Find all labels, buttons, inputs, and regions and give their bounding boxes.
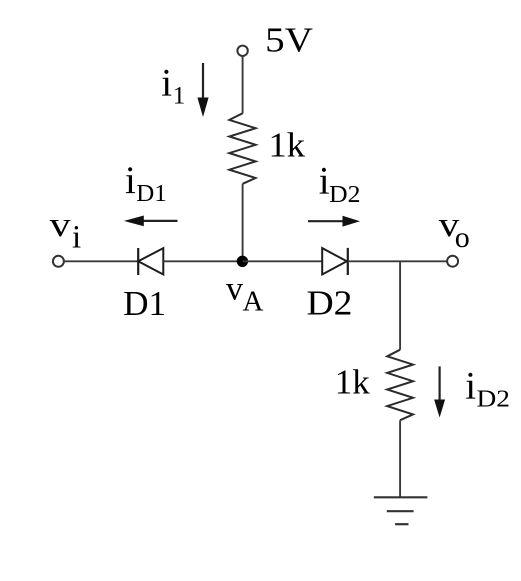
svg-text:5V: 5V: [265, 21, 313, 60]
svg-text:1k: 1k: [335, 362, 371, 401]
label iD2: [319, 159, 361, 208]
svg-text:D2: D2: [307, 284, 353, 323]
wire output node down to R2: [399, 261, 401, 349]
terminal 5V supply: [237, 46, 247, 56]
resistor R1: [229, 113, 255, 184]
svg-text:v: v: [50, 205, 72, 244]
svg-text:i: i: [72, 220, 81, 256]
svg-text:A: A: [243, 285, 264, 317]
svg-text:i: i: [125, 159, 136, 202]
svg-text:1: 1: [173, 82, 186, 109]
wire R2 to ground: [399, 420, 401, 497]
label vA: [226, 270, 264, 317]
terminal vo output: [447, 256, 458, 267]
label i1: [161, 61, 185, 109]
svg-text:v: v: [226, 270, 243, 307]
current arrow iD1: [124, 216, 178, 227]
svg-text:i: i: [465, 364, 476, 407]
wire node A to D2: [243, 260, 323, 262]
diode D1: [138, 248, 163, 275]
label iD1: [125, 159, 167, 207]
diode D2: [322, 248, 348, 275]
node A junction dot: [237, 256, 248, 267]
label iD2 (R2 current): [465, 364, 510, 412]
svg-text:i: i: [161, 61, 172, 104]
wire R1 to node A: [242, 184, 244, 261]
wire vi terminal to D1: [64, 260, 138, 262]
svg-text:D1: D1: [136, 181, 167, 207]
current arrow iD2: [308, 216, 360, 227]
wire D1 to node A: [163, 260, 242, 262]
wire D2 to vo terminal: [348, 260, 447, 262]
ground: [374, 497, 428, 524]
label vi: [50, 205, 82, 256]
svg-text:o: o: [455, 221, 470, 254]
svg-text:1k: 1k: [269, 126, 306, 165]
wire supply to R1: [242, 56, 244, 113]
svg-text:D2: D2: [477, 387, 511, 413]
resistor R2: [387, 350, 413, 421]
svg-text:D2: D2: [329, 182, 361, 208]
label vo: [439, 205, 470, 254]
svg-text:D1: D1: [123, 284, 166, 323]
current arrow i1: [197, 63, 208, 117]
current arrow iD2 through R2: [434, 366, 445, 417]
terminal vi input: [53, 256, 64, 267]
